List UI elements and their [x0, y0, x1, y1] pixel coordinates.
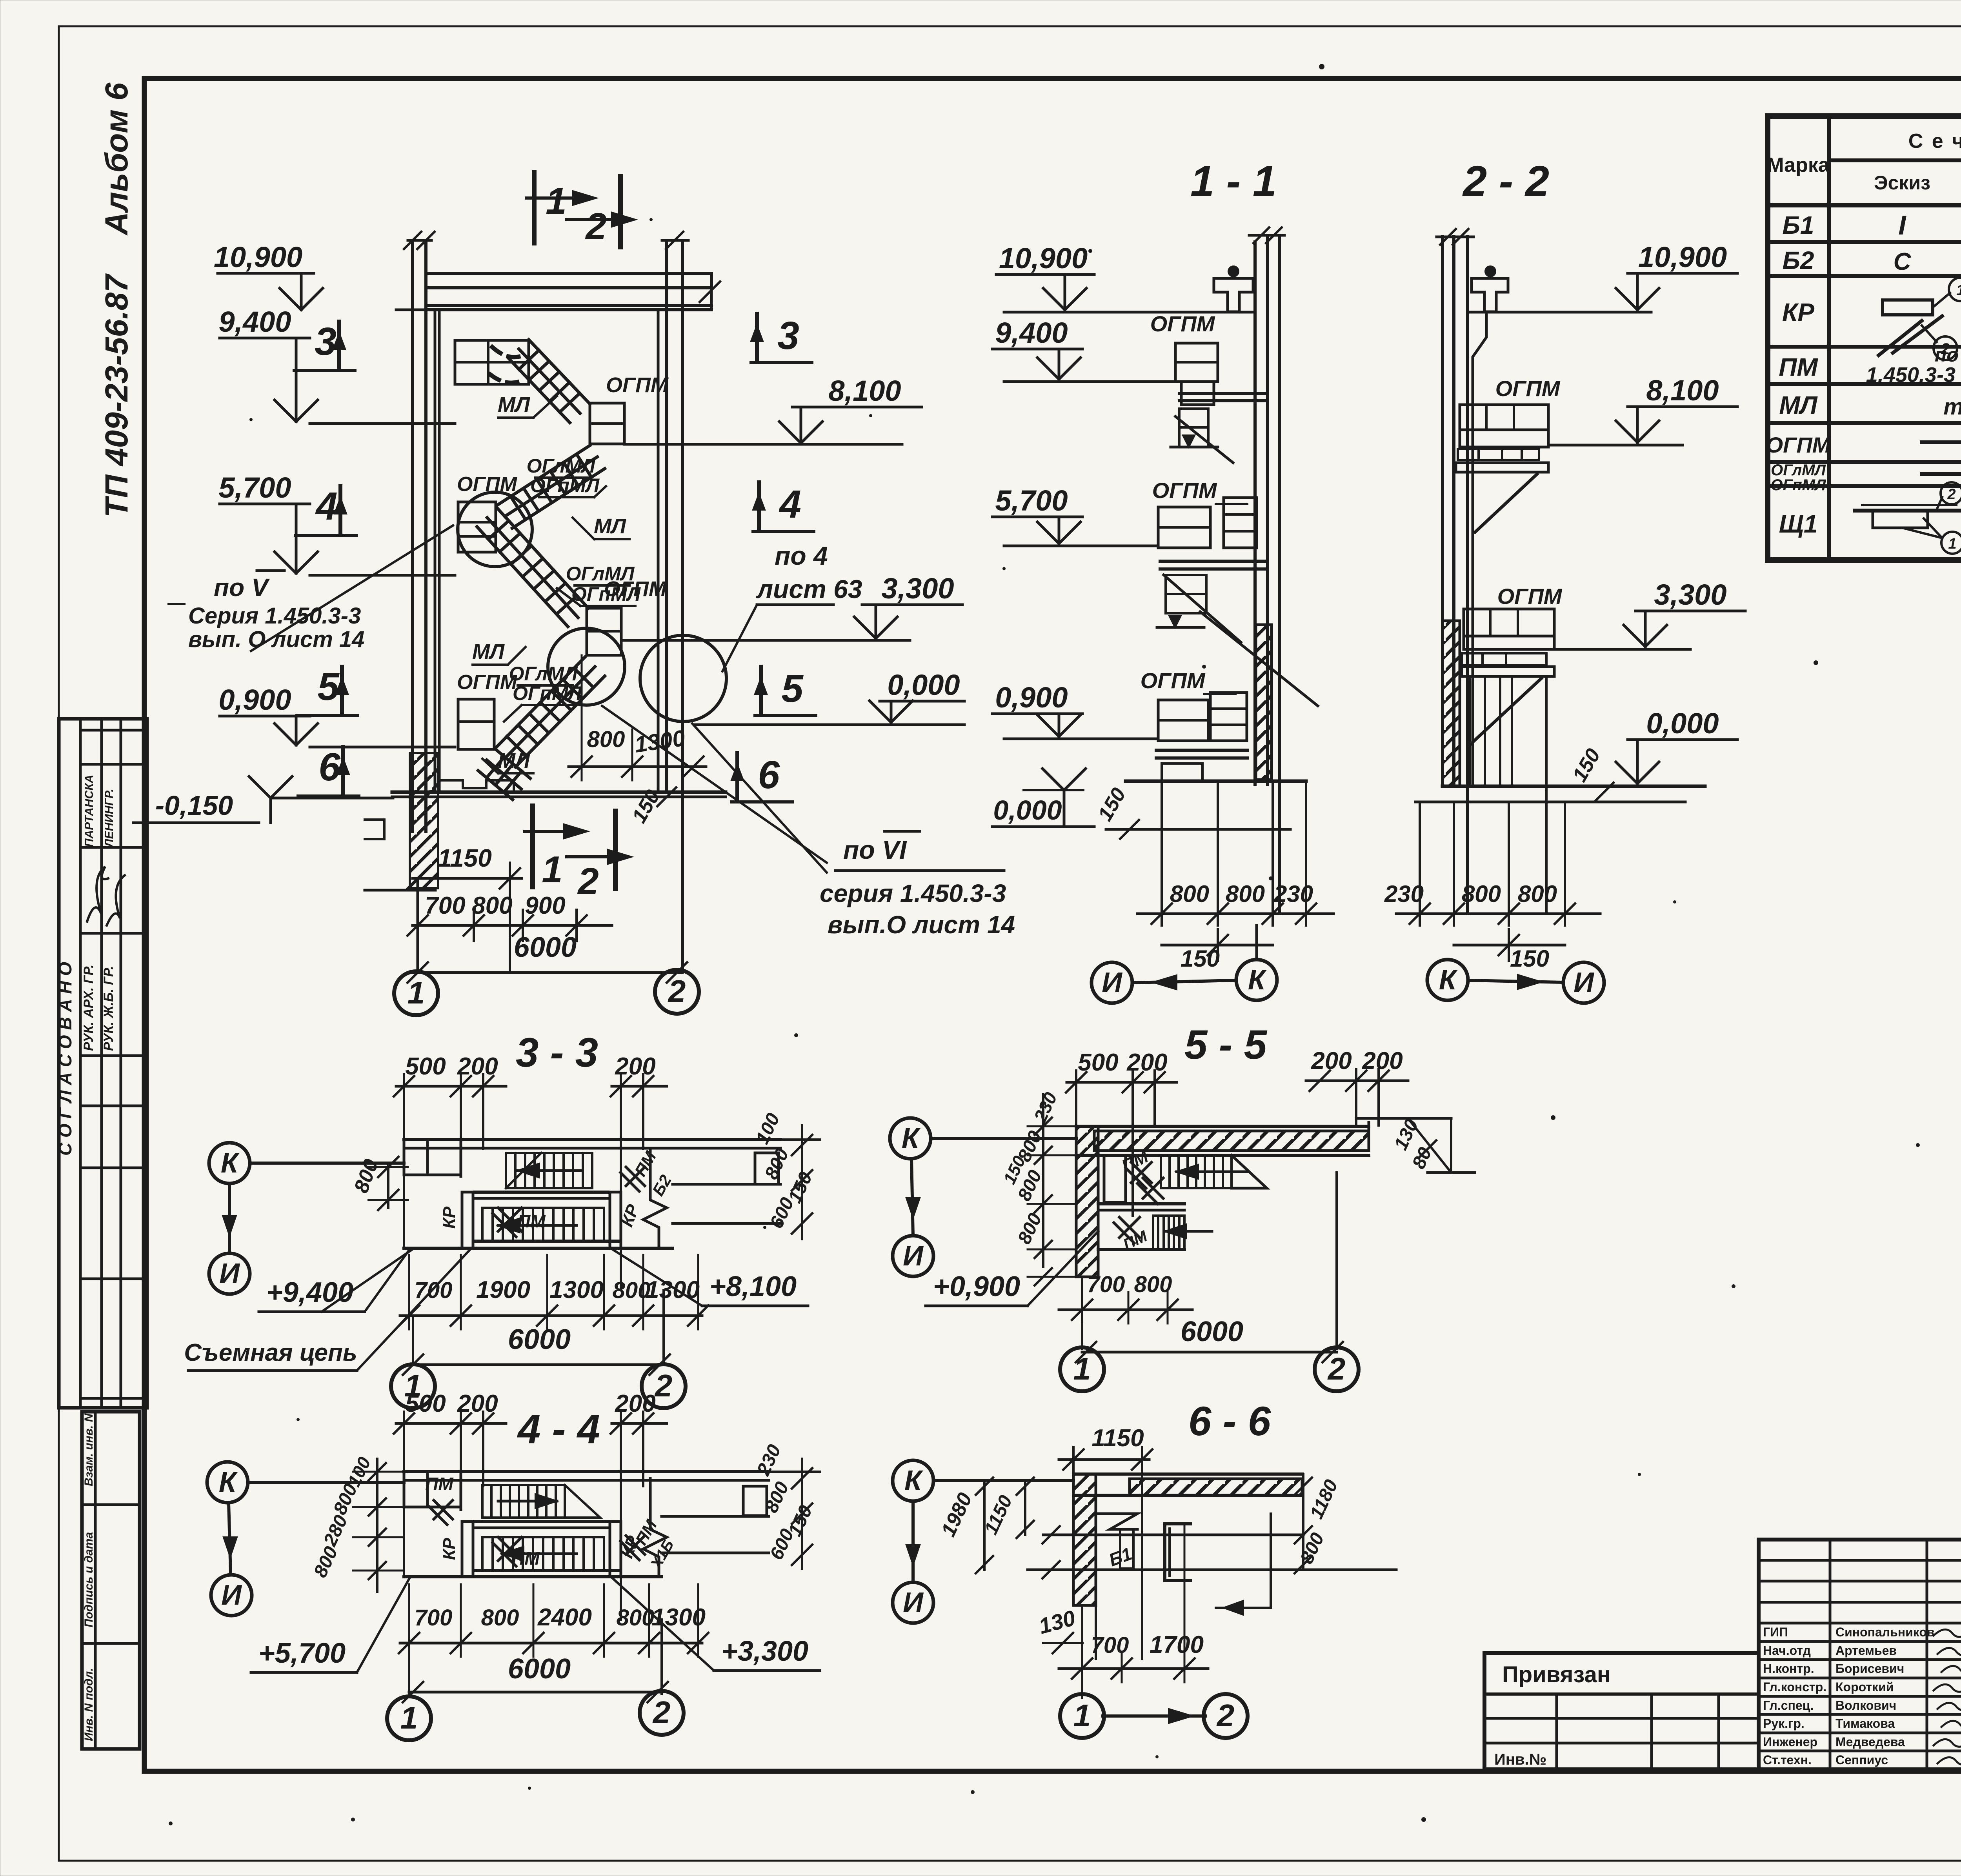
section 5-5 lower flight	[1098, 1216, 1212, 1253]
svg-text:РУК. Ж.Б. ГР.: РУК. Ж.Б. ГР.	[101, 966, 116, 1051]
section 1-1 ОГПМ 0900 block	[1141, 668, 1247, 781]
stair flight 0900 to ground	[478, 749, 530, 800]
grid circle 2 elevation	[655, 970, 699, 1014]
svg-text:Эскиз: Эскиз	[1874, 172, 1930, 194]
svg-text:1: 1	[1073, 1698, 1091, 1733]
section flag 5 right	[755, 667, 816, 716]
detail callout circle middle	[548, 628, 625, 705]
svg-text:Рук.гр.: Рук.гр.	[1763, 1716, 1805, 1731]
section 1-1 view direction И К	[1091, 925, 1277, 1003]
svg-text:500: 500	[405, 1053, 446, 1080]
svg-text:4: 4	[315, 484, 338, 528]
svg-text:+8,100: +8,100	[709, 1271, 797, 1302]
section flag 4 right	[753, 482, 814, 531]
svg-text:5,700: 5,700	[218, 471, 291, 504]
section 1-1 ground line	[1106, 781, 1306, 829]
svg-text:2: 2	[1947, 486, 1956, 503]
section 2-2 ground line	[1415, 786, 1705, 802]
svg-text:10,900: 10,900	[1638, 241, 1727, 273]
svg-text:И: И	[1574, 967, 1595, 998]
svg-text:ОГпМЛ: ОГпМЛ	[571, 583, 641, 605]
section 6-6 bottom dimensions 700 1700	[1059, 1524, 1208, 1698]
svg-text:КР: КР	[440, 1206, 459, 1229]
elevation level mark 5,700 left	[218, 471, 455, 575]
svg-text:3,300: 3,300	[1654, 578, 1726, 611]
section 2-2 dimension lines bottom	[1384, 802, 1600, 972]
svg-text:9,400: 9,400	[995, 316, 1068, 349]
section title 3-3	[516, 1030, 598, 1076]
svg-text:по 4: по 4	[775, 541, 828, 570]
svg-text:230: 230	[1384, 881, 1424, 907]
svg-text:800: 800	[1518, 881, 1557, 907]
svg-text:10,900: 10,900	[999, 242, 1088, 274]
table row ОГПМ	[1766, 427, 1961, 459]
section 3-3 view direction К И	[209, 1143, 404, 1294]
svg-text:700: 700	[425, 892, 465, 919]
elevation level mark 10,900 left	[214, 241, 426, 310]
section 4-4 grid circles	[387, 1620, 684, 1740]
svg-text:Синопальников: Синопальников	[1835, 1625, 1935, 1639]
svg-text:800: 800	[1226, 881, 1265, 907]
elevation level mark 8,100 right	[624, 374, 922, 444]
section 4-4 right dimensions	[749, 1442, 820, 1569]
section 6-6 channel section	[1165, 1524, 1190, 1580]
svg-text:150: 150	[1510, 945, 1549, 972]
section 5-5 grid circles	[1060, 1172, 1359, 1391]
svg-text:1150: 1150	[1091, 1425, 1144, 1452]
svg-text:ОГПМ: ОГПМ	[1495, 376, 1561, 401]
title block Привязан box	[1484, 1653, 1759, 1769]
svg-text:2 - 2: 2 - 2	[1462, 157, 1549, 205]
svg-text:1300: 1300	[646, 1276, 700, 1303]
section 4-4 lower flight steps	[482, 1537, 604, 1571]
section 5-5 upper flight	[1119, 1147, 1267, 1204]
section flag 3 right	[751, 314, 812, 363]
svg-text:6000: 6000	[508, 1324, 571, 1355]
section 4-4 right break line	[643, 1478, 667, 1577]
svg-text:ОГПМ: ОГПМ	[1141, 668, 1206, 693]
section 5-5 left dims stack	[1000, 1089, 1076, 1285]
svg-text:1: 1	[1073, 1351, 1091, 1386]
svg-text:Н.контр.: Н.контр.	[1763, 1661, 1814, 1676]
svg-text:500: 500	[405, 1390, 446, 1417]
elevation column axis 2	[662, 232, 688, 969]
svg-text:К: К	[902, 1123, 921, 1154]
svg-text:800: 800	[1170, 881, 1209, 907]
svg-text:8,100: 8,100	[828, 374, 901, 407]
section 4-4 upper flight steps	[425, 1474, 600, 1525]
svg-text:800: 800	[587, 727, 625, 752]
svg-text:3: 3	[777, 314, 799, 358]
svg-text:10,900: 10,900	[214, 241, 302, 273]
section 1-1 level line 10,900	[1004, 311, 1255, 314]
svg-text:ОГПМ: ОГПМ	[457, 671, 518, 694]
section 6-6 beam Б1	[1096, 1514, 1137, 1570]
svg-text:Инв. N подл.: Инв. N подл.	[82, 1668, 95, 1741]
section 6-6 right dims	[1295, 1474, 1342, 1573]
svg-text:6: 6	[318, 745, 341, 789]
element list table grid	[1768, 116, 1961, 560]
section title 1-1	[1190, 157, 1277, 205]
section flag 4 left	[295, 484, 356, 535]
svg-text:И: И	[219, 1258, 240, 1289]
section 1-1 level line 5,700	[1004, 545, 1158, 547]
svg-text:5 - 5: 5 - 5	[1184, 1022, 1268, 1068]
svg-text:МЛ: МЛ	[472, 640, 505, 664]
section mark 1-2 bottom	[525, 806, 631, 902]
section flag 6 right	[731, 753, 792, 802]
svg-text:И: И	[1102, 967, 1123, 998]
table row МЛ	[1779, 389, 1961, 420]
landing ОГПМ level 0900 left	[457, 671, 518, 749]
svg-text:200: 200	[1362, 1047, 1403, 1074]
svg-text:ОГлМЛ: ОГлМЛ	[566, 563, 635, 585]
section 4-4 left dimension stack	[310, 1454, 404, 1592]
svg-text:1: 1	[400, 1700, 418, 1735]
section 5-5 left wall hatched	[1076, 1126, 1098, 1277]
landing ОГПМ level 8100 right	[590, 373, 669, 444]
svg-text:5: 5	[781, 667, 804, 711]
section 5-5 view direction К И	[890, 1118, 1076, 1276]
reference note по 4 лист 63	[722, 541, 862, 671]
section 2-2 level line 3,300	[1554, 578, 1745, 649]
svg-text:Волкович: Волкович	[1835, 1698, 1896, 1712]
svg-text:Медведева: Медведева	[1835, 1735, 1905, 1749]
svg-text:Б2: Б2	[1783, 246, 1814, 274]
elevation dashed existing structure	[455, 340, 529, 384]
section 3-3 top dimension 200 right	[611, 1053, 667, 1290]
svg-text:700: 700	[415, 1605, 453, 1631]
svg-text:-0,150: -0,150	[155, 790, 233, 821]
elevation level mark 0,900 left	[218, 684, 455, 747]
svg-text:2400: 2400	[537, 1604, 592, 1631]
landing ОГПМ level 3300 right	[587, 577, 667, 655]
section 3-3 top dimensions 500 200	[394, 1053, 506, 1248]
svg-text:вып. О лист 14: вып. О лист 14	[188, 627, 364, 652]
svg-text:К: К	[219, 1467, 238, 1498]
section 2-2 level line 8,100	[1548, 374, 1737, 445]
svg-text:200: 200	[457, 1053, 498, 1080]
margin caption ТП 409-23-56.87 Альбом 6	[99, 273, 135, 518]
svg-text:Тимакова: Тимакова	[1835, 1716, 1895, 1731]
svg-text:Артемьев: Артемьев	[1835, 1643, 1897, 1658]
section title 4-4	[517, 1406, 600, 1452]
section 1-1 dimension lines bottom	[1137, 781, 1333, 972]
landing ОГПМ level 5700 left	[457, 473, 518, 552]
section 4-4 level callouts	[251, 1578, 820, 1672]
section 1-1 ОГПМ 5700 block	[1152, 478, 1318, 706]
section 1-1 crane rail	[1214, 267, 1253, 312]
svg-text:800: 800	[481, 1605, 519, 1631]
section 3-3 bottom dimensions	[399, 1255, 708, 1375]
svg-text:2: 2	[1216, 1698, 1235, 1733]
section 4-4 top dimension 200 right	[611, 1390, 667, 1620]
svg-text:0,000: 0,000	[887, 669, 960, 701]
svg-text:3,300: 3,300	[881, 572, 954, 605]
section 6-6 top dimension 1150	[1059, 1425, 1152, 1659]
section 2-2 column jog	[1468, 312, 1486, 786]
section 2-2 ОГПМ 8100 block	[1456, 376, 1561, 532]
section title 5-5	[1184, 1022, 1268, 1068]
svg-text:2: 2	[577, 860, 598, 902]
svg-text:К: К	[221, 1147, 240, 1179]
svg-text:Короткий: Короткий	[1835, 1680, 1894, 1694]
section flag 3 left	[294, 320, 355, 371]
svg-text:ОГПМ: ОГПМ	[1766, 433, 1831, 457]
sidebar approval table	[55, 719, 147, 1408]
svg-text:ПМ: ПМ	[517, 1211, 546, 1231]
svg-text:900: 900	[525, 892, 565, 919]
svg-text:1300: 1300	[549, 1276, 604, 1303]
svg-text:К: К	[1439, 964, 1458, 996]
svg-text:3 - 3: 3 - 3	[516, 1030, 598, 1076]
table row Б1	[1783, 209, 1961, 240]
section 3-3 level callouts	[259, 1249, 808, 1312]
section 3-3 grid circles	[391, 1290, 686, 1408]
section 2-2 level mark 0,000	[1568, 707, 1737, 802]
table row ОГлМЛ ОГпМЛ	[1771, 459, 1961, 494]
section 6-6 view direction К И	[893, 1460, 1073, 1623]
svg-text:Марка: Марка	[1767, 154, 1830, 176]
svg-text:6: 6	[758, 753, 780, 797]
svg-text:1900: 1900	[476, 1276, 530, 1303]
svg-text:Ст.техн.: Ст.техн.	[1763, 1753, 1812, 1767]
svg-text:КР: КР	[1782, 298, 1814, 326]
svg-text:ПМ: ПМ	[1779, 353, 1818, 381]
section 4-4 bottom dimensions	[399, 1584, 708, 1702]
svg-text:вып.О лист 14: вып.О лист 14	[828, 911, 1015, 939]
section 6-6 level lines	[1028, 1514, 1396, 1615]
section 4-4 right side walls	[662, 1472, 769, 1553]
svg-text:2: 2	[654, 1368, 673, 1403]
svg-text:ОГпМЛ: ОГпМЛ	[1771, 476, 1826, 494]
table row Щ1 mark	[1779, 482, 1961, 554]
section 6-6 grid circles	[1060, 1694, 1248, 1738]
grid circle 1 elevation	[394, 878, 438, 1015]
section title 6-6	[1188, 1398, 1271, 1444]
svg-text:Нач.отд: Нач.отд	[1763, 1643, 1811, 1658]
svg-text:Гл.констр.: Гл.констр.	[1763, 1680, 1826, 1694]
svg-text:0,000: 0,000	[1646, 707, 1719, 740]
svg-text:ПМ: ПМ	[511, 1548, 540, 1569]
elevation left wall line	[435, 310, 439, 792]
svg-text:МЛ: МЛ	[498, 393, 531, 416]
margin caption Альбом 6	[99, 82, 135, 236]
svg-text:700: 700	[1087, 1272, 1125, 1297]
svg-text:ГИП: ГИП	[1763, 1625, 1788, 1639]
svg-text:И: И	[221, 1580, 242, 1611]
svg-text:0,000: 0,000	[993, 795, 1062, 825]
svg-text:700: 700	[1091, 1632, 1129, 1658]
svg-text:ОГлМЛ: ОГлМЛ	[509, 663, 578, 685]
table row Б2	[1783, 244, 1961, 275]
svg-text:ЛЕНИНГР.: ЛЕНИНГР.	[103, 789, 116, 848]
svg-text:К: К	[1248, 964, 1267, 996]
svg-text:ОГпМЛ: ОГпМЛ	[530, 474, 600, 496]
table header texts	[1767, 124, 1961, 203]
section flag 5 left	[297, 665, 358, 716]
svg-text:6 - 6: 6 - 6	[1188, 1398, 1271, 1444]
stair flight 8100 to 5700	[497, 445, 605, 528]
svg-text:С: С	[1894, 248, 1912, 275]
svg-text:Б1: Б1	[1783, 211, 1814, 239]
svg-text:1: 1	[407, 975, 425, 1010]
section 3-3 upper flight steps	[506, 1153, 592, 1188]
svg-text:200: 200	[457, 1390, 498, 1417]
svg-text:6000: 6000	[514, 932, 577, 963]
svg-text:Инв.№: Инв.№	[1494, 1751, 1546, 1768]
detail callout circle right	[640, 635, 726, 722]
section 6-6 left dims	[937, 1478, 1034, 1573]
section 5-5 top dimensions 200 200	[1306, 1047, 1408, 1125]
section 5-5 bottom dimensions	[1059, 1272, 1343, 1362]
svg-text:МЛ: МЛ	[1779, 391, 1818, 419]
svg-text:ОГПМ: ОГПМ	[1497, 584, 1563, 609]
svg-text:5: 5	[317, 665, 340, 709]
section 4-4 view direction К И	[207, 1462, 404, 1616]
svg-text:ПМ: ПМ	[425, 1474, 454, 1494]
svg-text:I: I	[1898, 210, 1906, 240]
svg-text:И: И	[903, 1587, 924, 1618]
section 5-5 right dims	[1390, 1116, 1475, 1172]
svg-text:2: 2	[1327, 1351, 1346, 1386]
stair flight 5700 to 3300	[477, 508, 588, 627]
svg-text:Щ1: Щ1	[1779, 510, 1818, 538]
elevation dimension 6000	[407, 932, 687, 983]
svg-text:Серия 1.450.3-3: Серия 1.450.3-3	[188, 603, 361, 629]
section 6-6 left wall hatched	[1073, 1474, 1096, 1659]
elevation level mark -0,150 left	[133, 776, 393, 823]
stair flight 9400 to 8100	[509, 340, 590, 423]
svg-text:МЛ: МЛ	[594, 514, 627, 538]
svg-text:лист 63: лист 63	[756, 574, 862, 604]
svg-text:по VI: по VI	[843, 835, 907, 864]
elevation column axis 1	[404, 232, 435, 831]
elevation level mark 3,300 right	[621, 572, 962, 640]
svg-text:Борисевич: Борисевич	[1835, 1661, 1904, 1676]
svg-text:серия 1.450.3-3: серия 1.450.3-3	[820, 879, 1006, 907]
svg-text:Съемная цепь: Съемная цепь	[184, 1339, 357, 1366]
section 5-5 mid lines	[1098, 1204, 1184, 1210]
svg-text:6000: 6000	[508, 1653, 571, 1685]
elevation view stairs axis 1-2	[0, 0, 0, 0]
svg-text:то же: то же	[1943, 394, 1961, 420]
elevation right wall line	[657, 310, 660, 792]
svg-text:по серии: по серии	[1935, 344, 1961, 366]
svg-text:9,400: 9,400	[218, 305, 291, 338]
svg-text:6000: 6000	[1181, 1316, 1243, 1347]
section 5-5 inner column	[1098, 1126, 1126, 1277]
section 4-4 plan walls	[404, 1472, 662, 1577]
elevation 150 note right	[628, 786, 676, 827]
elevation level mark 0,000 right	[694, 669, 964, 725]
svg-text:1: 1	[1948, 536, 1956, 552]
section 6-6 slab hatched	[1073, 1474, 1302, 1495]
reference note по V серия 1.450.3-3	[169, 525, 453, 652]
svg-text:500: 500	[1078, 1049, 1118, 1076]
section 1-1 wall hatched strip	[1256, 625, 1272, 780]
section 1-1 ОГПМ 9400 block	[1150, 311, 1268, 463]
svg-text:МЛ: МЛ	[498, 749, 531, 773]
svg-text:+0,900: +0,900	[933, 1271, 1020, 1302]
section 3-3 lower flight steps	[482, 1208, 604, 1241]
svg-text:2: 2	[585, 205, 606, 247]
svg-text:КР: КР	[440, 1538, 459, 1560]
table row ПМ	[1779, 344, 1961, 387]
section 3-3 left dimension 800	[350, 1156, 408, 1210]
section 2-2 ОГПМ 3300 block	[1462, 584, 1563, 745]
svg-text:1 - 1: 1 - 1	[1190, 157, 1277, 205]
svg-text:С е ч е н и е: С е ч е н и е	[1908, 130, 1961, 153]
section 5-5 slab hatched	[1076, 1118, 1451, 1155]
svg-text:ТП 409-23-56.87: ТП 409-23-56.87	[99, 273, 135, 518]
section 4-4 ПМ marks lower	[493, 1516, 677, 1572]
svg-text:4 - 4: 4 - 4	[517, 1406, 600, 1452]
svg-text:+3,300: +3,300	[721, 1636, 808, 1667]
reference note по VI серия 1.450.3-3	[569, 655, 1015, 939]
section 3-3 right side walls	[673, 1140, 780, 1223]
svg-text:Сеппиус: Сеппиус	[1835, 1753, 1888, 1767]
sidebar inventory strip	[82, 1412, 140, 1749]
elevation level mark 9,400 left	[218, 305, 455, 424]
svg-text:К: К	[904, 1465, 924, 1496]
section 3-3 ПМ marks	[493, 1148, 675, 1237]
svg-text:1700: 1700	[1150, 1631, 1204, 1658]
section 3-3 right dimensions	[752, 1110, 820, 1239]
section 2-2 crane rail	[1472, 267, 1508, 312]
section 2-2 level line 10,900	[1468, 241, 1737, 312]
section 2-2 hatched wall strip	[1443, 621, 1460, 786]
section 2-2 lower vertical lines	[1470, 676, 1546, 914]
svg-text:800: 800	[1462, 881, 1501, 907]
table row КР mark	[1782, 278, 1961, 360]
svg-text:230: 230	[1273, 881, 1313, 907]
svg-text:1150: 1150	[438, 844, 492, 872]
svg-text:по V: по V	[214, 573, 270, 602]
section 1-1 column	[1249, 227, 1284, 914]
svg-text:2: 2	[668, 974, 686, 1009]
title block staff table	[1759, 1540, 1961, 1769]
svg-text:800: 800	[1134, 1272, 1172, 1297]
section 4-4 top dimensions 500 200	[394, 1390, 506, 1577]
section 4-4 mid rail lines	[475, 1522, 620, 1571]
section 5-5 top dimensions 500 200	[1066, 1049, 1177, 1216]
section 2-2 column	[1437, 229, 1473, 914]
svg-text:Гл.спец.: Гл.спец.	[1763, 1698, 1814, 1712]
section 2-2 view direction К И	[1427, 960, 1604, 1003]
section 4-4 stringer КР right	[610, 1522, 643, 1577]
section 6-6 dim 130	[1036, 1605, 1082, 1653]
svg-text:1.450.3-3 выпуск 0.1: 1.450.3-3 выпуск 0.1	[1866, 363, 1961, 387]
elevation dimensions 700 800 900	[407, 892, 612, 941]
section flag 6 left	[298, 745, 359, 796]
svg-text:ОГПМ: ОГПМ	[606, 373, 669, 397]
section 3-3 plan walls	[404, 1140, 673, 1248]
svg-text:3: 3	[315, 320, 337, 364]
svg-text:ОГлМЛ: ОГлМЛ	[527, 455, 596, 477]
section 4-4 stringer КР left	[440, 1522, 473, 1577]
section mark 1-2 top	[526, 173, 635, 247]
svg-text:0,900: 0,900	[995, 681, 1068, 714]
svg-text:+5,700: +5,700	[258, 1638, 346, 1669]
svg-text:8,100: 8,100	[1646, 374, 1719, 407]
section title 2-2	[1462, 157, 1549, 205]
elevation top beam	[426, 274, 720, 310]
stair flight 3300 to 0900	[496, 657, 605, 767]
note Съемная цепь	[184, 1249, 471, 1371]
svg-text:5,700: 5,700	[995, 484, 1068, 517]
svg-text:ОГПМ: ОГПМ	[1152, 478, 1217, 503]
